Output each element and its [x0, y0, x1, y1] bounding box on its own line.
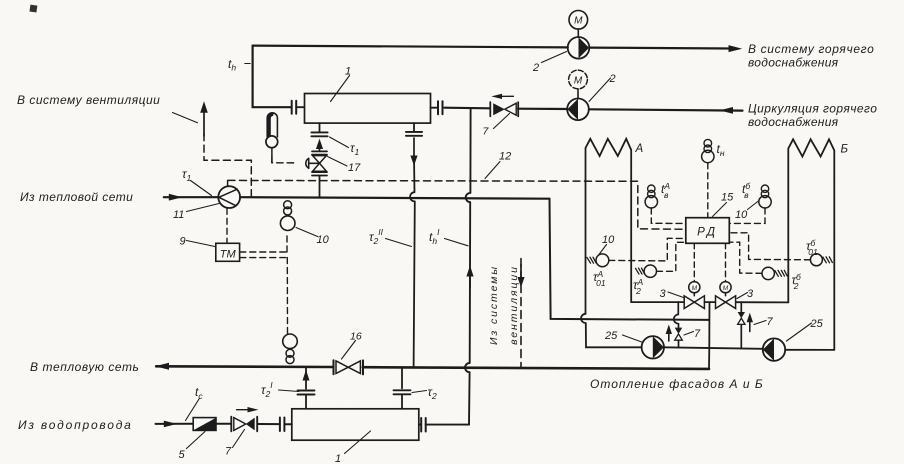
check valve 7 (facade B) — [738, 312, 745, 318]
svg-text:Из водопровода: Из водопровода — [18, 418, 133, 432]
scan mark top-left — [29, 5, 37, 13]
arrow circulation (pointing left) — [719, 107, 733, 114]
regulator RD box 15 — [686, 218, 730, 244]
sensor tau_01_A — [596, 254, 609, 267]
svg-text:10: 10 — [735, 209, 748, 221]
valve 3 (facade B) with motor — [716, 296, 726, 309]
svg-text:Из тепловой сети: Из тепловой сети — [20, 190, 133, 204]
flange pair stub B — [406, 132, 422, 136]
flange pair stub A — [311, 132, 327, 136]
thermometer (tau_1) — [271, 148, 273, 163]
svg-text:М: М — [574, 16, 583, 27]
svg-text:2: 2 — [532, 62, 539, 74]
flange pair HX1 left — [292, 101, 297, 114]
radiator facade A — [586, 139, 632, 314]
svg-text:17: 17 — [348, 162, 361, 174]
valve 17 actuator — [309, 158, 320, 168]
wire dashed thermometer to actuator — [272, 157, 298, 163]
elevator 11 — [218, 186, 240, 208]
sensor t_v_B (indoor B) — [761, 185, 768, 192]
wire dashed elevator to heat meter — [226, 208, 228, 243]
wire dashed TM to sensors — [240, 232, 288, 333]
sensor tau_01_B — [810, 254, 822, 266]
svg-text:9: 9 — [180, 236, 186, 248]
svg-text:ТМ: ТМ — [220, 249, 237, 261]
arrow to ventilation system — [203, 113, 205, 137]
svg-text:7: 7 — [225, 446, 232, 458]
wire stub B to return with hop at supply — [410, 156, 415, 367]
pump 25 (facade B) — [763, 338, 785, 360]
flange pair tau2 — [394, 390, 411, 394]
svg-text:А: А — [635, 143, 644, 155]
pump 2 (hot water supply) — [568, 37, 590, 59]
wire HX1 stub A down — [319, 123, 321, 132]
wire dashed RD to valve motors — [694, 243, 725, 281]
wire dashed from ventilation system with down arrow — [520, 259, 522, 368]
wire valve line facades — [631, 301, 788, 303]
wire hot water riser with hops — [465, 108, 471, 424]
arrow up on riser — [466, 266, 473, 277]
svg-text:вентиляции: вентиляции — [508, 265, 520, 345]
svg-text:В систему вентиляции: В систему вентиляции — [17, 93, 160, 107]
wire elevator stub to impulse line — [227, 181, 229, 187]
check valve 7 (circulation) — [490, 102, 518, 116]
heat exchanger 1 (lower) — [292, 409, 419, 440]
valve 17 flange bottom — [312, 172, 327, 175]
wire valve 17 to supply — [319, 176, 321, 198]
arrow down (heating outlet) — [413, 138, 415, 156]
check valve 7 (facade A) — [675, 328, 683, 334]
arrow above check valve (water) — [237, 409, 251, 411]
svg-text:водоснабжения: водоснабжения — [748, 115, 839, 129]
wire check valve riser B — [740, 302, 742, 348]
wire supply from heat network — [164, 197, 550, 199]
wire pump line A to B — [664, 347, 763, 349]
heat exchanger 1 (upper) — [305, 94, 431, 124]
heat meter TM box 9 — [216, 243, 240, 261]
sensor tau_2_B — [762, 267, 774, 279]
valve 17 flange top — [312, 151, 327, 154]
wire HX2 outlet to riser — [419, 424, 469, 426]
valve 3 (facade A) with motor — [684, 296, 694, 309]
sensor (return temperature) — [283, 334, 298, 349]
svg-text:М: М — [692, 285, 698, 292]
wire hot-water supply top line — [253, 46, 731, 49]
wire center vertical supply-return node — [708, 302, 711, 369]
sensor t_v_A (indoor A) — [648, 185, 655, 192]
svg-text:7: 7 — [694, 328, 701, 340]
arrow above check valve 7 — [496, 95, 514, 97]
svg-text:25: 25 — [604, 330, 618, 342]
wire return to heat network — [156, 366, 709, 369]
wire HX1 stub B down — [413, 123, 415, 132]
arrow up (facade B) — [749, 321, 751, 332]
wire dashed vent tap — [204, 135, 251, 197]
svg-text:10: 10 — [602, 234, 615, 246]
wire motor stem — [577, 89, 579, 99]
wire circulation line — [445, 108, 743, 111]
wire check valve riser A with hop — [674, 302, 679, 347]
wire return branch tau2 — [401, 367, 403, 388]
wire dashed impulse line 12 — [228, 180, 686, 229]
sensor tau_2_A — [644, 265, 656, 277]
flange pair HX1 right — [438, 101, 443, 114]
svg-text:5: 5 — [179, 449, 186, 461]
svg-text:10: 10 — [317, 234, 330, 246]
svg-text:Циркуляция горячего: Циркуляция горячего — [748, 102, 877, 116]
svg-text:11: 11 — [173, 209, 184, 221]
svg-text:Отопление фасадов А и Б: Отопление фасадов А и Б — [590, 377, 764, 391]
wire motor stem — [577, 29, 579, 37]
pump 2 (circulation) — [567, 99, 589, 121]
svg-text:7: 7 — [767, 316, 774, 328]
arrow up (facade A) — [668, 331, 670, 341]
arrow to hot water system — [729, 45, 743, 52]
svg-text:Из системы: Из системы — [488, 265, 500, 345]
svg-text:М: М — [723, 285, 729, 292]
arrow up into HX1 — [319, 144, 321, 151]
svg-text:15: 15 — [721, 192, 734, 204]
svg-text:25: 25 — [810, 318, 824, 330]
pump 2 motor M (circulation) — [569, 70, 588, 89]
pump 2 motor M (hot water) — [569, 10, 588, 29]
svg-text:водоснабжения: водоснабжения — [748, 56, 839, 70]
svg-text:3: 3 — [747, 288, 754, 300]
sensor 10 (supply temperature) — [284, 201, 292, 209]
svg-text:Б: Б — [841, 144, 849, 156]
svg-text:В систему горячего: В систему горячего — [748, 42, 874, 56]
filter 5 — [193, 418, 216, 431]
valve 17 body — [313, 156, 327, 164]
flange pair HX2 left — [280, 418, 285, 432]
wire pump B to radiator B — [785, 349, 834, 351]
sensor t_n (outdoor) — [704, 139, 712, 147]
wire tau_h riser left — [253, 46, 291, 108]
check valve 7 (water) — [231, 417, 257, 432]
arrow return outlet — [155, 363, 169, 370]
valve 16 — [334, 360, 364, 374]
svg-text:РД: РД — [697, 227, 718, 239]
pump 25 (facade A) — [642, 336, 664, 358]
wire facade A return with hop, to pump — [581, 314, 642, 348]
radiator facade B — [788, 139, 834, 350]
svg-text:3: 3 — [660, 288, 667, 300]
svg-text:В тепловую сеть: В тепловую сеть — [30, 360, 139, 374]
svg-text:М: М — [574, 75, 583, 86]
flange pair tau2I — [298, 391, 315, 395]
flange pair HX2 right — [421, 418, 426, 432]
wire supply downcomer to facades — [550, 199, 710, 320]
arrow water inlet — [164, 421, 177, 428]
svg-text:1: 1 — [335, 453, 341, 464]
svg-text:1: 1 — [345, 66, 351, 78]
wire water supply line — [156, 423, 292, 425]
wire return branch tau2I with up arrow — [305, 367, 307, 389]
svg-text:12: 12 — [499, 151, 511, 163]
arrow supply inlet — [169, 194, 183, 201]
